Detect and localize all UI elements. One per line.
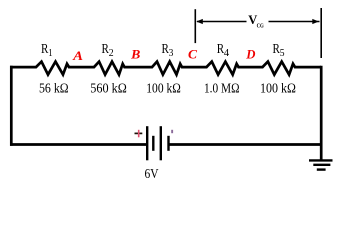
svg-text:4: 4 <box>224 48 229 59</box>
svg-text:R: R <box>102 41 109 56</box>
svg-text:1: 1 <box>48 48 52 59</box>
svg-text:560 kΩ: 560 kΩ <box>90 82 127 97</box>
svg-text:56 kΩ: 56 kΩ <box>39 82 69 97</box>
svg-text:A: A <box>72 49 83 63</box>
svg-text:100 kΩ: 100 kΩ <box>260 82 296 97</box>
svg-text:2: 2 <box>109 48 114 59</box>
svg-text:100 kΩ: 100 kΩ <box>146 82 181 97</box>
svg-text:6V: 6V <box>145 167 159 182</box>
svg-text:1.0 MΩ: 1.0 MΩ <box>204 82 240 97</box>
svg-text:C: C <box>188 48 198 62</box>
svg-text:D: D <box>245 48 255 62</box>
svg-text:B: B <box>130 48 140 62</box>
svg-text:R: R <box>41 41 48 56</box>
svg-text:CG: CG <box>257 22 264 29</box>
svg-text:5: 5 <box>280 48 285 59</box>
svg-text:3: 3 <box>169 48 174 59</box>
svg-text:R: R <box>162 41 169 56</box>
svg-text:R: R <box>273 41 280 56</box>
